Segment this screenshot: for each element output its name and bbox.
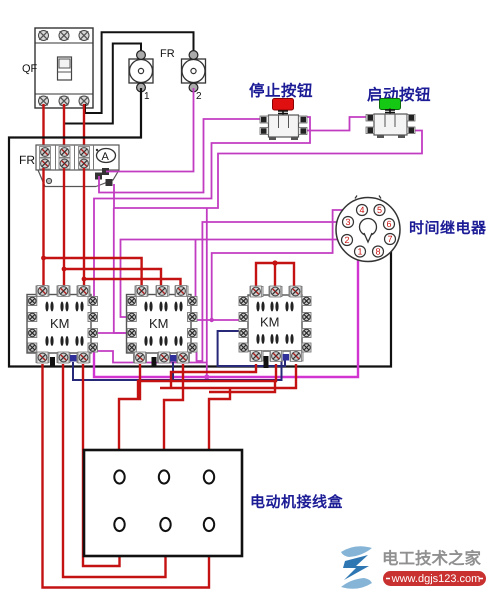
wire: bus jog bbox=[209, 381, 275, 392]
svg-text:1: 1 bbox=[144, 91, 150, 102]
wire: KM3 star bar bbox=[256, 263, 294, 286]
svg-text:5: 5 bbox=[377, 205, 382, 215]
ears + terminal screws bbox=[260, 116, 269, 123]
svg-text:1: 1 bbox=[357, 247, 362, 257]
QF bottom screws bbox=[39, 96, 49, 106]
svg-text:8: 8 bbox=[375, 247, 380, 257]
spring stem bbox=[385, 109, 395, 115]
wire: branch phase2 to KM2 top bbox=[64, 269, 161, 286]
wire: navy coil return bus bbox=[73, 361, 282, 380]
pins bbox=[342, 205, 396, 258]
wire: KM1 t1 loop to box bottom B3 bbox=[43, 364, 210, 588]
wire: FR aux to stop button left bbox=[99, 119, 262, 193]
wire: KM1 right3 stub bbox=[97, 332, 127, 334]
wire: pin2 drop to KM2 right1 bbox=[195, 240, 197, 301]
junction dots (magenta) bbox=[210, 318, 214, 322]
red cap bbox=[273, 99, 294, 111]
wire: KM2 right3 stub down bbox=[196, 351, 198, 361]
svg-text:2: 2 bbox=[196, 91, 202, 102]
svg-text:4: 4 bbox=[359, 205, 364, 215]
wire: time relay pin1 to coil bus (thick) bbox=[94, 252, 358, 377]
svg-text:www.dgjs123.com: www.dgjs123.com bbox=[391, 573, 481, 585]
svg-text:FR: FR bbox=[160, 48, 175, 60]
wire: branch phase3 to KM2 top bbox=[84, 279, 181, 286]
svg-text:QF: QF bbox=[22, 63, 38, 75]
center keyhole bbox=[360, 219, 377, 236]
wire: FR2 heater bottom to FR aux bbox=[106, 88, 194, 172]
wire: start right to KM1 right aux bbox=[114, 131, 422, 209]
svg-text:电工技术之家: 电工技术之家 bbox=[382, 549, 482, 568]
svg-text:FR: FR bbox=[19, 153, 35, 167]
wire: KM3 star bar center riser bbox=[274, 263, 276, 286]
green cap bbox=[380, 99, 401, 110]
wire: time relay pin2 to KM2 left bbox=[121, 240, 348, 318]
KM2 coil stub (black) bbox=[152, 357, 157, 368]
wire: coil bus drop bbox=[206, 208, 208, 377]
wire: branch phase1 to KM2 top bbox=[44, 258, 142, 286]
KM3 coil stub (black) bbox=[264, 356, 269, 368]
wire: KM2 right to KM3 left bbox=[197, 319, 242, 321]
KM2 small terminal bbox=[170, 355, 177, 362]
svg-text:时间继电器: 时间继电器 bbox=[409, 219, 487, 237]
wire: QF screw2 to FR block L2 (red) bbox=[63, 104, 65, 148]
svg-text:停止按钮: 停止按钮 bbox=[249, 82, 313, 100]
svg-text:KM: KM bbox=[50, 316, 70, 331]
wire: KM2 t3 to motor box T2 bbox=[164, 364, 183, 470]
ammeter A bbox=[97, 149, 116, 163]
svg-text:2: 2 bbox=[344, 235, 349, 245]
wire: stop right-top down-around to FR aux bbox=[94, 117, 310, 297]
wire: KM3 t1 to bus bbox=[171, 364, 256, 388]
wire: time relay pin3 to KM2 right bbox=[197, 222, 348, 361]
wire: KM2 t1 to motor box T1 bbox=[119, 364, 140, 470]
wire: QF screw1 to FR block L1 (red) bbox=[42, 104, 44, 148]
svg-text:A: A bbox=[102, 151, 110, 163]
wire: main loop black (FR1 bottom - left border - bottom - time relay pin7) bbox=[9, 88, 391, 367]
wire: QF bottom screw2 to FR1 heater (black) bbox=[64, 44, 141, 124]
body bbox=[269, 115, 299, 137]
wire: FR block to KM1 top phase3 bbox=[83, 168, 85, 286]
wire: time relay pin4 to junction bbox=[212, 210, 362, 320]
svg-text:6: 6 bbox=[386, 219, 391, 229]
wire: motor box T3 riser bbox=[209, 388, 230, 471]
wire: KM1 t3 loop to box bottom B1 bbox=[83, 364, 120, 566]
logo swoosh top bbox=[341, 546, 372, 557]
contactor KM2 bbox=[127, 286, 198, 368]
QF toggle bbox=[58, 57, 72, 80]
watermark url pill bbox=[383, 571, 486, 586]
wire: KM3 t2 to bus bbox=[138, 364, 276, 399]
wire: QF bottom screw3 to FR2 heater (black) bbox=[85, 32, 194, 113]
svg-text:KM: KM bbox=[149, 316, 169, 331]
wire: bundle drop to KM2 left4 bbox=[114, 208, 127, 333]
logo Z bolt bbox=[343, 555, 369, 580]
contactor KM3 bbox=[239, 286, 311, 368]
wire: stop right-bottom to start left bbox=[298, 117, 371, 131]
ears + screws bbox=[366, 115, 374, 122]
wire: KM2 blue terminal stub bbox=[172, 362, 174, 380]
svg-text:电动机接线盒: 电动机接线盒 bbox=[250, 493, 344, 511]
wire: KM3 t3 to bus bbox=[160, 364, 296, 388]
svg-text:KM: KM bbox=[260, 315, 280, 330]
wire: KM1 right4 to coil area bbox=[94, 351, 207, 363]
wire: FR block to KM1 top phase2 bbox=[63, 168, 65, 286]
FR aux contact terminals bbox=[95, 173, 102, 180]
KM3 blue terminal bbox=[283, 354, 290, 361]
breaker QF body bbox=[35, 28, 93, 108]
QF top screws bbox=[39, 31, 49, 41]
wire: KM1 t2 loop to box bottom B2 bbox=[63, 364, 166, 577]
svg-text:3: 3 bbox=[345, 217, 350, 227]
wire: QF screw3 to FR block L3 (red) bbox=[83, 104, 85, 148]
wire: navy KM3 left3 to KM3 coil bbox=[218, 331, 285, 366]
junction dots red bbox=[41, 256, 46, 261]
body bbox=[374, 114, 407, 135]
logo swoosh bottom bbox=[341, 578, 372, 589]
contactor KM1 bbox=[27, 286, 98, 368]
svg-text:7: 7 bbox=[387, 234, 392, 244]
spring stem bbox=[278, 111, 288, 118]
wire: FR block to KM1 top phase1 bbox=[42, 168, 44, 286]
KM1 coil stub (black) bbox=[50, 357, 55, 368]
KM1 small terminal bbox=[70, 355, 77, 362]
